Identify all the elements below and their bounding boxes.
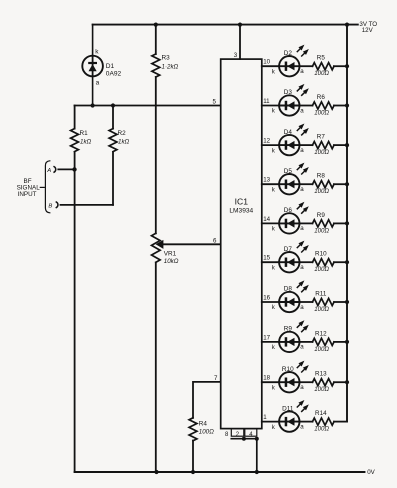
svg-text:5: 5 [213,99,217,106]
svg-text:a: a [300,304,304,311]
wire bottom 0V rail [75,471,365,473]
svg-text:D8: D8 [284,286,293,293]
wire R10 to R13 [300,381,313,383]
wire pin 10 [262,65,279,67]
wire D11 to R14 [300,421,313,423]
svg-text:100Ω: 100Ω [314,426,329,433]
svg-text:a: a [300,423,304,430]
wire D3 to R6 [300,105,313,107]
LED R9 [279,321,308,352]
svg-text:100Ω: 100Ω [314,188,329,195]
wire pin 14 [262,222,279,224]
wire pins 8-2-4 bus [231,439,256,472]
svg-text:1kΩ: 1kΩ [80,139,92,146]
wire pin 12 [262,144,279,146]
wire right supply rail [346,25,348,422]
wire pin 18 [262,381,279,383]
svg-text:D1: D1 [106,63,115,70]
node right rail row 14 [345,221,349,225]
LED D11 [279,401,308,432]
resistor R4 [189,418,197,441]
svg-text:100Ω: 100Ω [314,149,329,156]
wire pin 11 [262,105,279,107]
svg-text:16: 16 [263,294,270,301]
wire R2 branch vertical [112,106,114,205]
wire pin 17 [262,341,279,343]
svg-text:R11: R11 [315,290,327,297]
wire R13 to right rail [334,381,347,383]
input bracket [45,161,49,213]
wire R5 to right rail [334,65,347,67]
wire D5 to R8 [300,183,313,185]
wire R8 to right rail [334,183,347,185]
wire input A [58,168,74,170]
pin 2 tab [231,429,244,437]
node right rail row 11 [345,103,349,107]
wire R6 to right rail [334,105,347,107]
wire D8 to R11 [300,301,313,303]
svg-text:1: 1 [263,414,267,421]
wire pin 16 [262,301,279,303]
LED D3 [279,85,308,116]
node right rail row 16 [345,300,349,304]
svg-text:R14: R14 [315,410,327,417]
LED D6 [279,203,308,234]
node pin2 bus junction [242,437,246,441]
svg-text:0V: 0V [367,469,375,476]
svg-text:R9: R9 [317,212,326,219]
svg-text:7: 7 [214,375,218,382]
svg-text:100Ω: 100Ω [199,428,214,435]
resistor R8 [313,181,335,188]
wire input B [61,204,114,206]
svg-text:VR1: VR1 [164,251,177,258]
node top rail / R3 junction [154,23,158,27]
resistor R13 [313,379,335,386]
svg-text:11: 11 [263,98,270,105]
wire R1 branch vertical [74,106,76,473]
svg-text:a: a [300,344,304,351]
svg-text:D4: D4 [284,129,293,136]
wire R9 to R12 [300,341,313,343]
wire D2 to R5 [300,65,313,67]
svg-text:R13: R13 [315,371,327,378]
wire D1 branch vertical [92,25,94,106]
node pin4 bus junction [255,437,259,441]
LED D7 [279,241,308,272]
svg-text:100Ω: 100Ω [314,306,329,313]
node top rail / pin3 junction [238,23,242,27]
svg-text:R7: R7 [317,134,326,141]
wire top supply rail [93,24,358,26]
wire D6 to R9 [300,222,313,224]
node right rail row 18 [345,380,349,384]
svg-text:D6: D6 [284,207,293,214]
LED D5 [279,163,308,194]
node 0V rail / pin4 junction [255,470,259,474]
node right rail row 17 [345,340,349,344]
svg-text:B: B [48,203,52,209]
wire pin 6 [163,243,221,245]
svg-text:100Ω: 100Ω [314,70,329,77]
wire pin 7 [193,382,221,472]
svg-text:LM3934: LM3934 [229,207,253,214]
wire R10 to right rail [334,261,347,263]
svg-text:R9: R9 [284,326,293,333]
svg-text:a: a [96,80,100,87]
label dash [40,186,44,188]
resistor R3 [152,54,160,77]
svg-text:13: 13 [263,177,270,184]
svg-text:R10: R10 [315,251,327,258]
wire pin 3 [239,25,241,60]
svg-text:a: a [300,147,304,154]
svg-text:INPUT: INPUT [18,191,37,198]
resistor R10 [313,259,335,266]
wire D4 to R7 [300,144,313,146]
potentiometer VR1 [152,233,161,262]
wire pin 15 [262,261,279,263]
svg-text:R8: R8 [317,173,326,180]
LED D2 [279,45,308,76]
svg-text:R12: R12 [315,330,327,337]
svg-text:D5: D5 [284,168,293,175]
svg-text:17: 17 [263,334,270,341]
svg-text:15: 15 [263,255,270,262]
terminal A [54,167,56,173]
wire R9 to right rail [334,222,347,224]
resistor R12 [313,338,335,345]
svg-text:14: 14 [263,216,270,223]
node right rail row 13 [345,182,349,186]
wire R11 to right rail [334,301,347,303]
wire R7 to right rail [334,144,347,146]
svg-text:100Ω: 100Ω [314,110,329,117]
node 0V rail / R4 junction [191,470,195,474]
svg-text:a: a [300,186,304,193]
resistor R5 [313,63,335,70]
svg-text:10kΩ: 10kΩ [164,258,179,265]
svg-text:D7: D7 [284,246,293,253]
svg-text:1kΩ: 1kΩ [118,139,130,146]
svg-text:D3: D3 [284,89,293,96]
svg-text:100Ω: 100Ω [314,266,329,273]
svg-text:6: 6 [213,237,217,244]
wire pin 1 [262,421,279,423]
wire signal node to pin 5 [75,105,221,107]
svg-text:a: a [300,384,304,391]
op-amp IC1 LM3934 box [221,59,262,429]
resistor R2 [109,129,117,152]
svg-text:R5: R5 [317,55,326,62]
resistor R9 [313,220,335,227]
svg-text:18: 18 [263,375,270,382]
LED D4 [279,124,308,155]
svg-text:0A92: 0A92 [106,71,122,78]
node top rail / right rail junction [345,23,349,27]
svg-text:R2: R2 [118,130,127,137]
svg-text:10: 10 [263,59,270,66]
resistor R7 [313,142,335,149]
svg-text:R6: R6 [317,94,326,101]
LED R10 [279,361,308,392]
svg-text:12V: 12V [362,27,374,34]
svg-text:a: a [300,264,304,271]
svg-text:3: 3 [234,52,238,59]
VR1 wiper arrow [157,241,163,248]
node right rail row 10 [345,64,349,68]
svg-text:R10: R10 [282,366,294,373]
svg-text:R1: R1 [80,130,89,137]
svg-text:1·2kΩ: 1·2kΩ [162,63,179,70]
wire R12 to right rail [334,341,347,343]
resistor R14 [313,418,335,425]
node right rail row 12 [345,143,349,147]
wire R14 to right rail corner [334,421,347,423]
svg-text:R4: R4 [199,420,208,427]
svg-text:a: a [300,225,304,232]
resistor R6 [313,102,335,109]
svg-text:D11: D11 [282,405,294,412]
svg-text:100Ω: 100Ω [314,386,329,393]
terminal B [56,202,58,208]
LED D8 [279,281,308,312]
resistor R1 [71,129,79,152]
svg-text:R3: R3 [162,55,171,62]
svg-text:D2: D2 [284,50,293,57]
svg-text:A: A [46,168,51,174]
svg-text:a: a [300,68,304,75]
wire R3 branch [155,25,157,472]
svg-text:a: a [300,107,304,114]
pin 4 tab [245,429,257,437]
svg-text:IC1: IC1 [235,197,249,207]
diode D1 [82,56,103,77]
node R2 top junction [111,103,115,107]
node D1 anode junction [91,103,95,107]
node 0V rail / VR1 junction [154,470,158,474]
resistor R11 [313,298,335,305]
node input A junction [72,167,76,171]
svg-text:12: 12 [263,138,270,145]
node right rail row 15 [345,260,349,264]
svg-text:100Ω: 100Ω [314,346,329,353]
svg-text:100Ω: 100Ω [314,227,329,234]
wire pin 13 [262,183,279,185]
wire D7 to R10 [300,261,313,263]
